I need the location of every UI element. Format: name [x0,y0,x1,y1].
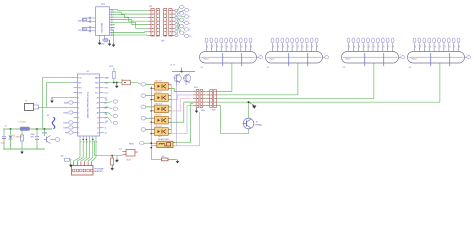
svg-text:100n: 100n [100,44,104,46]
svg-text:8: 8 [189,29,190,31]
wire bundle optos to SV1 [171,88,193,133]
wire anode V4 [217,63,440,102]
svg-text:IC1: IC1 [101,3,105,6]
svg-text:A0: A0 [106,99,108,102]
crystal Q1 with load capacitors [78,17,93,23]
svg-text:7: 7 [78,123,79,125]
resistor R1 [14,129,24,149]
svg-text:13: 13 [97,118,99,120]
svg-text:13: 13 [105,118,107,120]
connector JP1 header [148,6,159,36]
optocoupler OK3 TLP627 [151,103,171,112]
connector SV1 [193,87,205,108]
svg-text:IN-12: IN-12 [270,59,276,61]
svg-text:GND: GND [201,110,206,112]
svg-text:2: 2 [189,10,190,12]
svg-text:A1: A1 [97,107,99,110]
ground [115,158,119,162]
wire GND pin [52,97,74,99]
svg-text:2x 1N4007: 2x 1N4007 [14,137,23,139]
svg-text:T6: T6 [256,122,258,124]
ground [112,43,116,47]
svg-text:100n: 100n [1,143,5,145]
resistor R5 [95,141,118,167]
svg-text:ARDUINO PRO MINI (5V): ARDUINO PRO MINI (5V) [87,92,90,118]
svg-text:R2: R2 [61,156,63,158]
svg-text:T: T [84,142,85,144]
svg-text:74HC595N: 74HC595N [102,22,104,33]
svg-text:10: 10 [105,133,107,135]
svg-text:T1 T2: T1 T2 [170,65,176,67]
ground [176,160,180,164]
svg-text:IN-12: IN-12 [412,59,418,61]
resistor R3 [151,156,176,161]
svg-text:A0: A0 [97,112,99,115]
connector JP2 header [161,9,175,43]
transistor Q3 [42,129,60,144]
input pad row 5 [141,128,152,135]
svg-text:+5V: +5V [4,126,8,128]
pad Ext5V [129,142,157,149]
wire anode V1 [217,63,232,91]
svg-text:A2: A2 [106,113,108,116]
capacitor C1 [100,39,110,46]
capacitor C3 [1,129,7,149]
wire SV1 to SV2 links [205,91,206,105]
microcontroller board N1 Arduino Pro Mini [74,71,110,144]
svg-text:A3: A3 [106,120,108,123]
wire opto cathode rail [150,86,152,159]
svg-text:5: 5 [184,20,185,22]
nixie tube V1 IN-12 [200,38,263,69]
svg-text:12: 12 [97,123,99,125]
svg-text:6: 6 [189,23,190,25]
svg-text:RST: RST [95,88,98,90]
wire T6 emitter loop [217,106,248,134]
IC IC1 74HC595 shift register [93,3,113,40]
svg-text:SQW: SQW [64,102,69,104]
svg-text:6: 6 [78,118,79,120]
svg-text:IN-12: IN-12 [346,59,352,61]
optocoupler OK5 TLP627 [151,126,171,135]
svg-text:3: 3 [184,13,185,15]
ground [108,40,112,46]
optocoupler OK1 TLP627 [151,81,171,90]
svg-text:RAW: RAW [105,77,109,80]
svg-text:HV5V: HV5V [129,144,135,146]
wire T6 collector [248,101,250,118]
transistor pair T1 T2 [170,65,195,86]
ground [115,83,119,89]
svg-text:A2: A2 [97,102,99,105]
input pad row 3 [141,105,152,112]
wire anode V3 [217,63,374,99]
svg-text:IN-12: IN-12 [204,59,210,61]
wire T1 emitter to HV return [176,86,178,146]
ground rail [3,149,45,154]
svg-text:11: 11 [105,128,107,130]
output pads of JP2 [175,5,191,38]
inductor L1 and +5V rail [3,122,52,131]
svg-text:MPSA42: MPSA42 [256,124,263,127]
crystal Q2 with load capacitors [78,26,92,32]
wire HV gnd [173,112,200,146]
svg-text:IC2: IC2 [119,148,122,150]
capacitor C4 [31,129,40,149]
optocoupler OK4 TLP627 [151,115,171,124]
svg-text:7: 7 [184,26,185,28]
net arrow HV [249,102,257,109]
resistor R2 [61,156,73,168]
svg-text:L1 100u: L1 100u [19,122,26,124]
svg-text:9: 9 [184,33,185,35]
svg-text:10: 10 [189,36,191,38]
svg-text:9: 9 [78,133,79,135]
svg-text:HV1: HV1 [158,136,162,138]
power jack X1 [25,101,74,111]
fuse F1 [47,115,55,129]
svg-text:ADAPTER: ADAPTER [95,170,104,173]
svg-text:3: 3 [78,103,79,105]
nixie tube V3 IN-12 [342,38,405,69]
input pad row 2 [141,94,152,101]
wire bus Arduino to PROG [74,140,96,163]
svg-text:BTN3: BTN3 [63,127,68,129]
svg-text:A2: A2 [105,102,107,105]
svg-text:VCC: VCC [109,66,114,68]
HV power module HV1 NCH6100HV [155,136,175,148]
nixie tube V2 IN-12 [266,38,329,69]
pads P1-P4 [104,99,118,125]
input pads BTN [63,101,73,135]
ground [110,167,114,171]
wire [47,83,74,108]
svg-text:GND: GND [105,83,110,85]
svg-text:8: 8 [78,128,79,130]
transistor T6 [243,118,262,129]
svg-text:A3: A3 [97,97,99,100]
ground [98,40,102,45]
svg-text:A1: A1 [106,106,108,109]
diode D2 [121,79,141,84]
svg-text:11: 11 [97,128,99,130]
svg-text:R3: R3 [162,156,164,158]
svg-text:2: 2 [78,98,79,100]
svg-text:4: 4 [189,17,190,19]
svg-text:NCH6100HV: NCH6100HV [158,139,170,141]
svg-text:16M: 16M [78,21,82,23]
wire bus IC1 to JP1 [112,10,148,44]
diode D1 [9,129,15,149]
svg-text:BTN1: BTN1 [63,112,68,114]
connector PROG header [72,162,104,175]
ground [195,108,206,113]
wire [43,78,74,130]
ground [50,98,54,104]
svg-text:4: 4 [78,108,79,110]
connector SV2 [207,90,218,112]
wire anode V2 [217,63,298,95]
svg-text:1: 1 [184,7,185,9]
svg-text:32k: 32k [78,30,81,32]
regulator IC2 78L05 [117,148,138,161]
svg-text:SV2: SV2 [212,110,216,112]
svg-text:10: 10 [97,133,99,135]
svg-text:RAW: RAW [95,77,99,80]
input pad row 1 [141,83,152,90]
pin labels IC1 [111,8,114,37]
svg-text:5: 5 [78,113,79,115]
wire HV out [173,103,193,142]
nixie tube V4 IN-12 [408,38,471,69]
svg-text:BTN2: BTN2 [63,122,68,124]
svg-text:RST: RST [78,88,81,90]
svg-text:78L05: 78L05 [126,160,131,162]
input pad row 4 [141,116,152,123]
resistor R4 pull-up [104,66,123,83]
optocoupler OK2 TLP627 [151,92,171,101]
svg-text:TX0: TX0 [78,78,81,80]
wire opto collector rail [170,84,172,133]
